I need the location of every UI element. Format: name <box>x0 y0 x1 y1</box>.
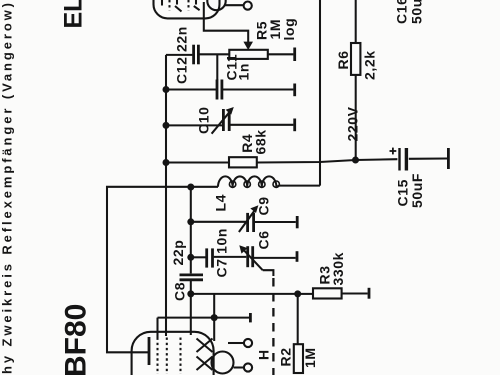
svg-text:2,2k: 2,2k <box>362 50 378 80</box>
svg-text:C9: C9 <box>256 196 272 215</box>
node L4/C9 branch <box>187 184 194 191</box>
terminal bar (diode line) <box>249 313 252 322</box>
variable capacitor C9 <box>248 213 254 232</box>
resistor R2 1M <box>294 344 303 373</box>
terminal bar (C15) <box>447 148 450 169</box>
svg-text:H: H <box>256 349 272 360</box>
node C9 <box>187 218 194 225</box>
tube V1 diode plates <box>197 339 213 371</box>
arrow of C6 <box>242 248 263 270</box>
wire C12 to R5 <box>200 53 230 55</box>
terminal bar (R5) <box>293 48 296 62</box>
variable capacitor C10 <box>223 109 229 131</box>
electrolytic C15 50uF <box>400 148 407 171</box>
wire bus to C10 <box>166 124 222 126</box>
wire detector bus vertical <box>190 187 192 273</box>
wire heater a <box>228 342 244 344</box>
wire tube V2 to terminal <box>225 4 244 6</box>
wire cathode V2 down to R5 wiper <box>204 18 248 44</box>
wire C6 to terminal bar <box>254 257 296 259</box>
tube V2 (output pentode EL..) envelope <box>154 0 220 18</box>
gang-link dashed line <box>272 278 274 375</box>
terminal (anode output) <box>244 2 252 10</box>
wire HT vertical (anode supply) <box>319 0 321 186</box>
resistor R4 68k <box>229 157 257 167</box>
terminal bar (C9) <box>296 216 299 228</box>
tube V1 (EBF80) envelope <box>132 332 214 375</box>
svg-text:50uF: 50uF <box>409 0 425 24</box>
wire AVC horizontal <box>191 293 298 295</box>
svg-text:C16: C16 <box>394 0 410 24</box>
wire drop to C11 <box>216 54 218 80</box>
wire C9 to terminal bar <box>255 221 296 223</box>
wire C12 left to bus <box>166 54 192 56</box>
svg-text:220V: 220V <box>345 106 361 141</box>
wire R5 right to terminal bar <box>268 53 294 55</box>
node bus-C10 <box>163 122 170 129</box>
tube V1 grids (dashed) <box>158 338 181 375</box>
svg-text:log: log <box>281 18 297 41</box>
resistor R6 2,2k <box>351 43 360 75</box>
node C7 <box>187 254 194 261</box>
wire C15 to terminal bar <box>409 157 447 159</box>
wire heater b <box>234 366 244 368</box>
arrow of C9 <box>239 209 256 232</box>
potentiometer R5 <box>229 50 267 59</box>
wire to C7 <box>191 256 206 258</box>
inductor L4 loop curls <box>229 181 279 187</box>
wire bus to R4 <box>166 161 229 163</box>
svg-text:68k: 68k <box>253 129 269 154</box>
tube V1 cathode <box>148 337 151 365</box>
svg-text:C10: C10 <box>196 107 212 134</box>
wire grid1 line to terminal bar <box>158 317 250 319</box>
plus sign of C15 <box>390 148 397 155</box>
inductor L4 <box>218 176 276 186</box>
gang-link elbow from C6 arrow <box>263 270 274 276</box>
svg-text:L4: L4 <box>213 194 229 212</box>
terminal bar (C11) <box>293 84 296 97</box>
wire R4 to 220V node and C15 <box>257 159 398 162</box>
wire R6 bottom to 220V node <box>355 75 357 160</box>
capacitor C7 10n <box>207 248 213 267</box>
arrow of C10 <box>212 110 231 133</box>
node R3/R2 <box>294 290 301 297</box>
wire diode tap vertical <box>213 294 215 341</box>
svg-text:EL: EL <box>60 0 88 29</box>
wire C11 to terminal bar <box>223 88 294 90</box>
capacitor C8 22p <box>180 275 204 280</box>
svg-text:1M: 1M <box>302 347 318 368</box>
wire node to R3 <box>298 293 313 295</box>
node bus-C11 <box>163 86 170 93</box>
svg-text:BF80: BF80 <box>60 304 93 375</box>
wire R3 to terminal bar <box>342 292 368 294</box>
wire bus to C11 <box>166 88 216 90</box>
variable capacitor C6 <box>248 246 253 267</box>
tube V2 anode-side bulge <box>207 0 225 10</box>
svg-text:R2: R2 <box>278 347 294 366</box>
wire node down to R2 <box>297 294 299 344</box>
wire L4 right up to HT <box>277 186 320 187</box>
node AVC line left <box>187 290 194 297</box>
terminal bar (R3) <box>368 288 371 299</box>
terminal bar (C10) <box>293 119 296 132</box>
wiper arrowhead onto R5 <box>243 42 253 50</box>
svg-text:1n: 1n <box>236 63 252 81</box>
capacitor C12 22n <box>194 45 199 65</box>
svg-text:C7 10n: C7 10n <box>214 228 230 278</box>
wire to C9 <box>191 221 246 223</box>
tube V1 diode-section bulge <box>212 352 234 374</box>
svg-text:C6: C6 <box>256 230 272 249</box>
wire L4 left leg from lower tube cathode <box>107 187 218 352</box>
node 220V <box>352 157 359 164</box>
heater terminal a <box>244 339 252 347</box>
wire grid1 drop into tube <box>156 318 158 338</box>
svg-text:hy Zweikreis Reflexempfänger (: hy Zweikreis Reflexempfänger (Vangerow) <box>0 0 15 374</box>
svg-text:C8: C8 <box>172 282 188 301</box>
wire C10 to terminal bar <box>231 124 294 126</box>
terminal bar (C6) <box>296 251 299 262</box>
wire R6 top <box>355 0 357 43</box>
tube V2 electrodes (dashed grids/cathode) <box>162 0 204 18</box>
wire bus (grid bus vertical) <box>165 55 167 336</box>
svg-text:R6: R6 <box>335 50 351 69</box>
svg-text:50uF: 50uF <box>409 173 425 208</box>
resistor R3 330k <box>313 288 342 298</box>
svg-text:330k: 330k <box>330 252 346 286</box>
capacitor C11 1n <box>217 80 222 100</box>
wire C7 to C6 <box>214 256 247 258</box>
heater terminal b <box>244 363 252 371</box>
node diode line <box>211 314 218 321</box>
node bus-R4 <box>163 159 170 166</box>
svg-text:22p: 22p <box>170 240 186 266</box>
